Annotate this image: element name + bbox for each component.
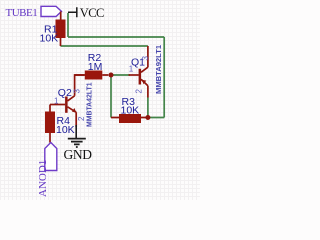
- svg-text:10K: 10K: [56, 124, 75, 136]
- wire right edge down: [163, 37, 165, 118]
- svg-text:MMBTA92LT1: MMBTA92LT1: [154, 44, 163, 94]
- svg-text:3: 3: [73, 89, 82, 94]
- svg-text:GND: GND: [64, 147, 93, 162]
- transistor Q2 base bar: [65, 97, 68, 113]
- svg-text:10K: 10K: [40, 33, 59, 45]
- node A junction dot: [109, 73, 114, 78]
- power VCC symbol: [68, 7, 77, 17]
- port TUBE1: [41, 6, 62, 16]
- wire from VCC down: [67, 13, 69, 37]
- svg-text:10K: 10K: [121, 105, 140, 117]
- ground symbol: [68, 139, 86, 147]
- port ANOD1: [45, 143, 57, 171]
- transistor Q2 leads: [50, 75, 85, 127]
- wire R1 bottom to Q1 collector: [61, 45, 148, 47]
- svg-text:TUBE1: TUBE1: [6, 7, 38, 19]
- svg-text:1: 1: [54, 97, 59, 106]
- resistor R4: [49, 105, 51, 143]
- svg-text:2: 2: [135, 89, 144, 94]
- wire VCC rail across top: [68, 36, 164, 38]
- transistor Q1 emitter arrow: [142, 80, 146, 85]
- svg-text:1M: 1M: [88, 61, 103, 73]
- svg-text:VCC: VCC: [80, 6, 104, 20]
- svg-text:Q2: Q2: [58, 87, 72, 99]
- transistor Q1 leads: [129, 46, 148, 98]
- transistor Q1 base bar: [139, 69, 142, 85]
- wire bottom to emitter node B: [148, 117, 164, 119]
- svg-text:ANOD1: ANOD1: [37, 160, 49, 197]
- resistor R1: [60, 11, 62, 46]
- ground stub wire: [75, 125, 77, 139]
- node B junction dot: [145, 115, 150, 120]
- resistor R2: [75, 74, 109, 76]
- svg-text:3: 3: [141, 56, 150, 61]
- wire node A to Q1 base: [111, 74, 130, 76]
- svg-text:MMBTA42LT1: MMBTA42LT1: [87, 82, 94, 127]
- transistor Q2 emitter arrow: [72, 108, 77, 113]
- svg-text:1: 1: [129, 65, 134, 74]
- wire node A down to R3 left: [110, 75, 112, 118]
- resistor R3: [111, 117, 148, 119]
- svg-text:2: 2: [77, 116, 86, 121]
- wire Q1 emitter down to node B: [147, 98, 149, 118]
